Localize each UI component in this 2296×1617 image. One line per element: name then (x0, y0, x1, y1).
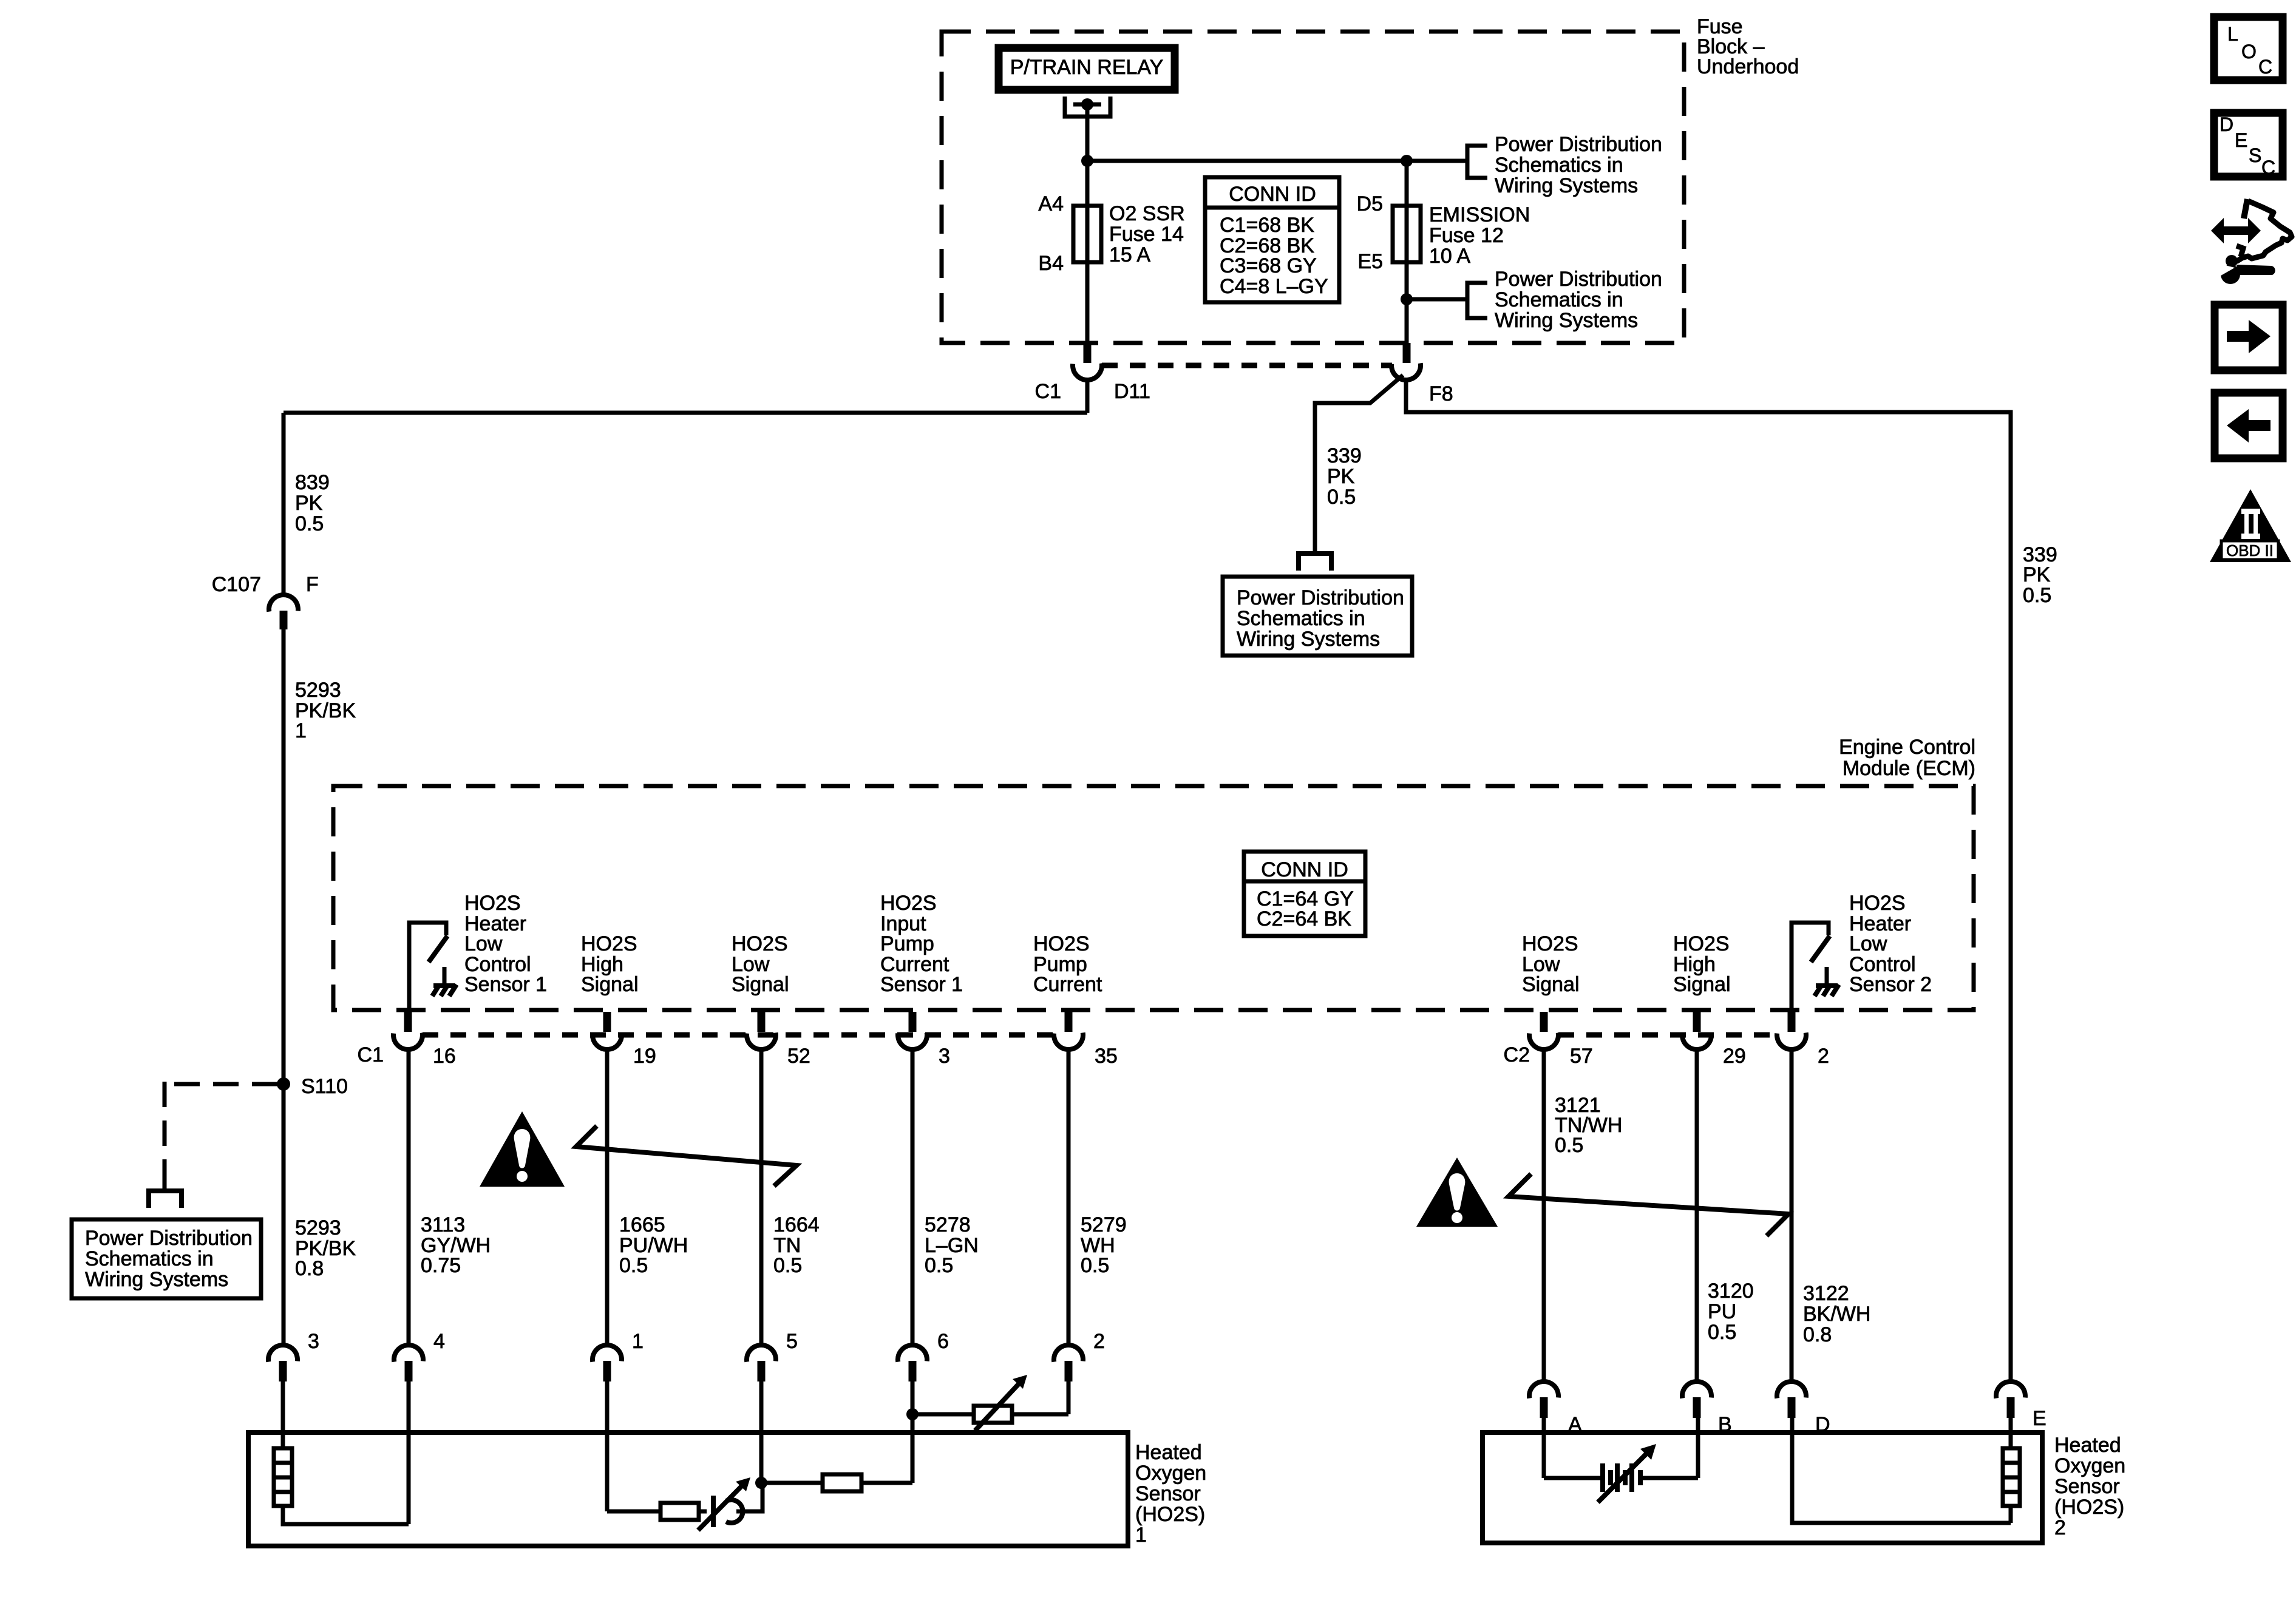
connector C1/D11 (1035, 343, 1150, 413)
svg-text:OBD II: OBD II (2226, 541, 2274, 560)
svg-text:Sensor 1: Sensor 1 (880, 973, 963, 996)
wire F8 down right rail (1406, 380, 2011, 1381)
svg-text:(HO2S): (HO2S) (2054, 1496, 2124, 1519)
svg-text:1665: 1665 (619, 1213, 665, 1236)
wire ECM3 to sensor pin 6 (911, 1049, 915, 1345)
wire label 1665 PU/WH 0.5 (619, 1213, 688, 1277)
wire label 5278 L-GN 0.5 (925, 1213, 979, 1277)
wire label 839 PK 0.5 (295, 471, 330, 535)
warning triangle 1 (480, 1111, 565, 1187)
resistor to pin 6 wire (761, 1474, 912, 1491)
heater element sensor 1 (274, 1448, 409, 1524)
svg-text:3: 3 (308, 1330, 319, 1353)
svg-text:Signal: Signal (1522, 973, 1580, 996)
svg-text:PK: PK (1327, 465, 1355, 488)
wire label 5293 PK/BK 0.8 (295, 1216, 356, 1280)
svg-text:HO2S: HO2S (1673, 932, 1730, 955)
svg-text:(HO2S): (HO2S) (1135, 1503, 1205, 1526)
svg-text:C2=64 BK: C2=64 BK (1257, 907, 1351, 931)
wire pin1 into box (605, 1381, 610, 1511)
svg-text:6: 6 (937, 1330, 949, 1353)
junction dot for lower bracket (1401, 293, 1413, 305)
icon arrow right (2215, 305, 2283, 370)
svg-text:D5: D5 (1357, 192, 1383, 215)
svg-text:10 A: 10 A (1429, 245, 1470, 268)
svg-text:Engine Control: Engine Control (1839, 736, 1975, 759)
svg-text:S: S (2249, 144, 2261, 166)
conn id table (ECM) (1244, 852, 1365, 936)
svg-text:O: O (2241, 41, 2257, 63)
svg-text:HO2S: HO2S (1033, 932, 1090, 955)
twisted wire arrow 2 (1509, 1174, 1788, 1236)
svg-text:PK: PK (295, 492, 323, 515)
svg-text:Oxygen: Oxygen (2054, 1454, 2125, 1477)
ECM pin 3 (896, 1012, 950, 1068)
label HO2S heater low control sensor 2 (1849, 892, 1932, 996)
sensor2 pin B connector (1680, 1380, 1731, 1436)
svg-text:0.5: 0.5 (2023, 584, 2051, 607)
label HO2S low signal (pin 52) (732, 932, 789, 996)
svg-text:CONN ID: CONN ID (1261, 858, 1348, 881)
bracket to power distribution (mid) (1467, 283, 1487, 318)
bracket to power distribution (left) (149, 1180, 182, 1208)
svg-text:0.5: 0.5 (1327, 486, 1356, 509)
svg-text:L: L (2227, 23, 2238, 45)
relay K: P/TRAIN RELAY box (999, 48, 1175, 90)
svg-text:HO2S: HO2S (732, 932, 788, 955)
wire: left rail down (282, 413, 286, 595)
svg-text:3122: 3122 (1803, 1282, 1849, 1305)
svg-text:0.5: 0.5 (773, 1254, 802, 1277)
svg-text:Low: Low (1849, 932, 1887, 955)
ECM dotted connector line C2 (1558, 1032, 1778, 1038)
svg-text:Module (ECM): Module (ECM) (1843, 757, 1975, 780)
power distribution box (middle) (1223, 577, 1412, 656)
svg-text:0.75: 0.75 (421, 1254, 461, 1277)
svg-text:HO2S: HO2S (581, 932, 637, 955)
svg-text:52: 52 (787, 1045, 810, 1068)
svg-text:2: 2 (1093, 1330, 1105, 1353)
ECM pin 52 (745, 1012, 810, 1068)
svg-text:F8: F8 (1429, 382, 1453, 405)
svg-text:5278: 5278 (925, 1213, 971, 1236)
svg-text:Wiring Systems: Wiring Systems (1495, 309, 1638, 332)
svg-text:Power Distribution: Power Distribution (1495, 133, 1662, 156)
svg-text:PU: PU (1708, 1300, 1736, 1323)
sensor1 pin 4 connector (392, 1330, 445, 1381)
svg-text:16: 16 (433, 1045, 456, 1068)
junction dot emission branch (1401, 155, 1413, 167)
wire: top-left rail (284, 411, 1087, 415)
svg-text:5293: 5293 (295, 679, 341, 702)
fuse block label (1697, 15, 1799, 78)
svg-text:1: 1 (295, 719, 307, 742)
wire label 3122 BK/WH 0.8 (1803, 1282, 1870, 1346)
ECM pin 57 (1504, 1012, 1593, 1068)
dashed branch from S110 (165, 1082, 277, 1086)
svg-text:1664: 1664 (773, 1213, 820, 1236)
wire ECM57 to sensor pin A (1542, 1049, 1546, 1381)
svg-text:S110: S110 (301, 1075, 348, 1098)
svg-text:0.8: 0.8 (295, 1257, 324, 1280)
bus wire relay to bracket (1087, 159, 1467, 163)
svg-text:57: 57 (1570, 1045, 1593, 1068)
icon DESC (2214, 113, 2283, 178)
svg-text:Heated: Heated (2054, 1434, 2121, 1457)
fuse F12: EMISSION Fuse 12 10A (1357, 161, 1530, 343)
sensor1 pin 1 connector (591, 1330, 644, 1381)
svg-text:C: C (2258, 56, 2272, 78)
HO2S heater low control driver symbol (sensor 1) (409, 923, 457, 1012)
heater element sensor 2 (2003, 1448, 2020, 1523)
svg-text:P/TRAIN RELAY: P/TRAIN RELAY (1010, 56, 1164, 79)
wire: C107 to sensor pin 3 (282, 629, 286, 1345)
wire ECM29 to sensor pin B (1695, 1049, 1699, 1381)
svg-text:C: C (2261, 157, 2275, 178)
svg-text:19: 19 (633, 1045, 656, 1068)
HO2S heater low control driver symbol (sensor 2) (1792, 923, 1839, 1012)
svg-text:Power Distribution: Power Distribution (1237, 586, 1404, 609)
dotted connector line under fuse block (1102, 363, 1392, 368)
sensor2 pin E connector (1994, 1380, 2046, 1430)
ECM pin 35 (1052, 1012, 1118, 1068)
svg-text:2: 2 (2054, 1516, 2066, 1539)
svg-text:3120: 3120 (1708, 1280, 1754, 1303)
svg-text:BK/WH: BK/WH (1803, 1303, 1870, 1326)
label HO2S heater low control sensor 1 (464, 892, 547, 996)
svg-text:O2 SSR: O2 SSR (1109, 202, 1185, 225)
diagonal branch from F8 (1315, 375, 1403, 551)
ECM pin 2 (1775, 1012, 1829, 1068)
wire ECM19 to sensor pin 1 (605, 1049, 610, 1345)
conn id table (fuse block) (1205, 177, 1339, 302)
connector F8 (1390, 343, 1453, 405)
svg-text:4: 4 (433, 1330, 445, 1353)
label HO2S input pump current sensor 1 (pin 3) (880, 892, 963, 996)
svg-text:0.5: 0.5 (619, 1254, 648, 1277)
wire pin A into box (1542, 1418, 1546, 1478)
svg-text:Underhood: Underhood (1697, 55, 1799, 78)
icon OBD II triangle (2210, 489, 2291, 562)
label HO2S high signal (pin 29) (1673, 932, 1731, 996)
svg-text:HO2S: HO2S (464, 892, 521, 915)
svg-text:Schematics in: Schematics in (1495, 288, 1623, 311)
svg-text:CONN ID: CONN ID (1229, 183, 1316, 206)
label heated oxygen sensor 2 (2054, 1434, 2125, 1539)
svg-text:2: 2 (1818, 1045, 1829, 1068)
wire label 3113 GY/WH 0.75 (421, 1213, 491, 1277)
fuse F14: O2 SSR Fuse 14 15A (1038, 161, 1184, 343)
svg-text:0.5: 0.5 (1555, 1134, 1583, 1157)
wire pin E into box (2009, 1418, 2013, 1448)
bracket to power distribution (top) (1467, 146, 1487, 178)
svg-text:C3=68 GY: C3=68 GY (1220, 254, 1317, 277)
svg-text:PK: PK (2023, 563, 2051, 586)
fuse block underhood dashed box (942, 32, 1684, 343)
svg-text:Signal: Signal (732, 973, 789, 996)
wire ECM35 to sensor pin 2 (1067, 1049, 1071, 1345)
ECM pin 16 (358, 1012, 456, 1068)
ECM dotted connector line C1 (423, 1032, 1055, 1038)
relay output cup symbol (1065, 97, 1110, 161)
ECM pin 29 (1680, 1012, 1746, 1068)
svg-text:Low: Low (464, 932, 503, 955)
svg-text:Wiring Systems: Wiring Systems (1495, 174, 1638, 197)
svg-text:E: E (2033, 1407, 2046, 1430)
wire pin5 into box (759, 1381, 764, 1483)
wire pin6 into box, junction above box (911, 1381, 915, 1483)
bracket to power distribution (middle) (1299, 554, 1331, 571)
svg-text:Fuse 12: Fuse 12 (1429, 224, 1504, 247)
svg-text:35: 35 (1095, 1045, 1118, 1068)
ECM label (1839, 736, 1975, 780)
svg-text:C107: C107 (212, 573, 261, 596)
connector C107 (212, 573, 319, 629)
svg-text:Schematics in: Schematics in (1237, 607, 1365, 630)
sensor2 pin D connector (1775, 1380, 1830, 1436)
svg-text:0.5: 0.5 (925, 1254, 953, 1277)
svg-text:339: 339 (1327, 444, 1362, 467)
svg-text:Power Distribution: Power Distribution (1495, 268, 1662, 291)
sensor1 pin 6 connector (896, 1330, 949, 1381)
svg-text:A4: A4 (1038, 192, 1064, 215)
svg-text:0.5: 0.5 (295, 512, 324, 535)
power distribution box (left) (72, 1219, 261, 1298)
svg-text:Heated: Heated (1135, 1441, 1202, 1464)
sensor1 pin 2 connector (1052, 1330, 1105, 1381)
svg-text:D11: D11 (1114, 380, 1150, 403)
svg-text:Power Distribution: Power Distribution (85, 1227, 253, 1250)
svg-text:0.8: 0.8 (1803, 1323, 1832, 1346)
svg-text:Fuse 14: Fuse 14 (1109, 223, 1184, 246)
svg-text:HO2S: HO2S (880, 892, 937, 915)
wire ECM16 to sensor pin 4 (407, 1049, 411, 1345)
svg-text:5: 5 (786, 1330, 798, 1353)
wire label 5293 PK/BK 1 (295, 679, 356, 742)
wire ECM52 to sensor pin 5 (759, 1049, 764, 1345)
sensing cell sensor 2 (battery with arrow) (1544, 1444, 1698, 1502)
icon diagnostic (arrow, part, wrench) (2211, 199, 2292, 284)
svg-text:D: D (2220, 114, 2233, 135)
wire pin4 into box (407, 1381, 411, 1524)
wire label 5279 WH 0.5 (1081, 1213, 1127, 1277)
svg-text:C2: C2 (1504, 1043, 1530, 1066)
svg-text:C4=8 L–GY: C4=8 L–GY (1220, 275, 1328, 298)
icon LOC (2214, 17, 2283, 80)
svg-text:Sensor: Sensor (2054, 1475, 2120, 1498)
sensor1 pin 3 connector (267, 1330, 319, 1381)
heated oxygen sensor 2 box (1483, 1432, 2042, 1543)
svg-text:C1: C1 (1035, 380, 1061, 403)
sensor2 pin A connector (1527, 1380, 1582, 1436)
wire label 3120 PU 0.5 (1708, 1280, 1754, 1344)
ECM pin 19 (591, 1012, 656, 1068)
wire pin3 into box (281, 1381, 285, 1448)
svg-text:Oxygen: Oxygen (1135, 1462, 1206, 1485)
splice S110 (277, 1075, 348, 1098)
svg-text:5279: 5279 (1081, 1213, 1127, 1236)
svg-text:15 A: 15 A (1109, 243, 1150, 266)
svg-text:Schematics in: Schematics in (85, 1247, 214, 1270)
svg-text:839: 839 (295, 471, 330, 494)
svg-text:3: 3 (939, 1045, 950, 1068)
svg-text:5293: 5293 (295, 1216, 341, 1239)
sensing element sensor 1 (607, 1477, 763, 1530)
wire label 339 PK 0.5 (right rail) (2023, 543, 2057, 607)
svg-text:Wiring Systems: Wiring Systems (85, 1268, 228, 1291)
wire to lower bracket (1407, 297, 1467, 302)
twisted wire arrow 1 (576, 1126, 796, 1186)
svg-text:Wiring Systems: Wiring Systems (1237, 628, 1380, 651)
svg-text:Signal: Signal (1673, 973, 1731, 996)
heated oxygen sensor 1 box (248, 1432, 1128, 1546)
label heated oxygen sensor 1 (1135, 1441, 1206, 1547)
svg-text:Sensor 1: Sensor 1 (464, 973, 547, 996)
svg-text:Schematics in: Schematics in (1495, 154, 1623, 177)
warning triangle 2 (1416, 1158, 1498, 1227)
svg-text:1: 1 (1135, 1524, 1147, 1547)
wire label 3121 TN/WH 0.5 (1555, 1094, 1622, 1157)
junction dot pin5/pin1 (755, 1477, 767, 1489)
wire label 1664 TN 0.5 (773, 1213, 820, 1277)
sensor1 pin 5 connector (745, 1330, 798, 1381)
svg-text:Sensor 2: Sensor 2 (1849, 973, 1932, 996)
svg-text:F: F (306, 573, 319, 596)
svg-text:Sensor: Sensor (1135, 1482, 1201, 1505)
wire label 339 PK 0.5 (left branch) (1327, 444, 1362, 509)
svg-text:0.5: 0.5 (1081, 1254, 1109, 1277)
wire pin D into box (1792, 1418, 2011, 1523)
svg-text:C1=68 BK: C1=68 BK (1220, 214, 1314, 237)
svg-text:HO2S: HO2S (1522, 932, 1578, 955)
label HO2S pump current (pin 35) (1033, 932, 1102, 996)
icon arrow left (2215, 393, 2283, 458)
label HO2S high signal (pin 19) (581, 932, 639, 996)
variable resistor between pin6 and pin2 wires (912, 1375, 1068, 1431)
svg-text:1: 1 (632, 1330, 644, 1353)
label HO2S low signal (pin 57) (1522, 932, 1580, 996)
svg-text:E: E (2235, 129, 2247, 151)
svg-text:29: 29 (1723, 1045, 1746, 1068)
ECM dashed box (333, 786, 1974, 1010)
wire pin B into box (1696, 1418, 1700, 1478)
svg-text:EMISSION: EMISSION (1429, 203, 1530, 226)
svg-text:HO2S: HO2S (1849, 892, 1906, 915)
svg-text:B4: B4 (1038, 252, 1064, 275)
svg-text:E5: E5 (1357, 250, 1383, 273)
svg-text:0.5: 0.5 (1708, 1321, 1736, 1344)
svg-text:Pump: Pump (880, 932, 934, 955)
svg-text:Current: Current (1033, 973, 1102, 996)
svg-text:3113: 3113 (421, 1213, 465, 1236)
svg-text:C1: C1 (358, 1043, 384, 1066)
wire ECM2 to sensor pin D (1790, 1049, 1794, 1381)
junction dot under relay (1081, 155, 1093, 167)
svg-text:Signal: Signal (581, 973, 639, 996)
